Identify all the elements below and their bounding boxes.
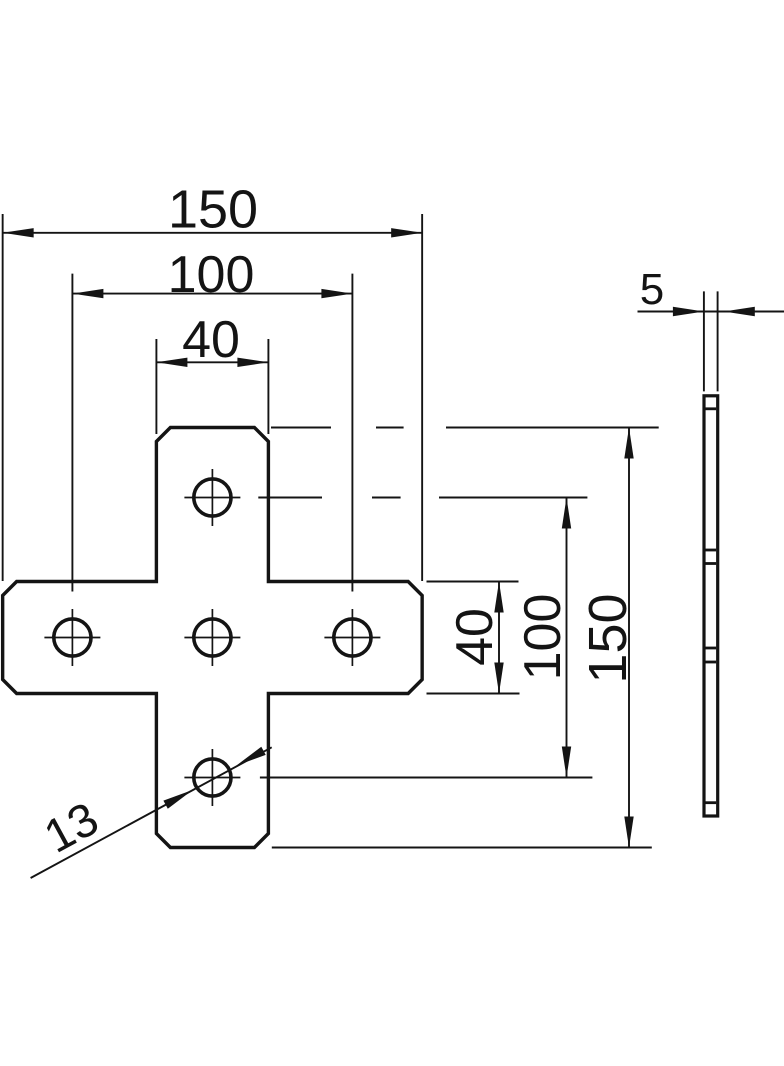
svg-text:40: 40 bbox=[446, 608, 504, 666]
dimension 150 right vertical bbox=[271, 428, 659, 848]
dimension 40 right vertical bbox=[427, 582, 520, 694]
hole left bbox=[54, 619, 91, 656]
hole center centerlines bbox=[184, 609, 240, 666]
svg-text:100: 100 bbox=[168, 246, 255, 304]
svg-text:150: 150 bbox=[578, 593, 638, 683]
svg-text:5: 5 bbox=[640, 265, 664, 314]
hole top bbox=[194, 479, 231, 516]
hole top centerlines bbox=[184, 469, 240, 526]
hole right centerlines bbox=[324, 609, 380, 666]
hole left centerlines bbox=[44, 609, 100, 666]
side view plate bbox=[704, 396, 718, 816]
leader 13 bbox=[31, 747, 272, 878]
hole center bbox=[194, 619, 231, 656]
hole bottom bbox=[194, 759, 231, 796]
side view edge ticks bbox=[706, 409, 717, 803]
front view plate outline bbox=[3, 428, 423, 848]
svg-text:150: 150 bbox=[168, 180, 258, 240]
dimension 100 right vertical bbox=[258, 498, 592, 778]
dimension 150 top bbox=[3, 214, 423, 581]
dimension 100 top bbox=[72, 274, 352, 592]
hole bottom centerlines bbox=[184, 749, 240, 806]
dimension 5 side view bbox=[638, 291, 784, 391]
dimension 40 top bbox=[156, 339, 268, 434]
hole right bbox=[334, 619, 371, 656]
svg-text:40: 40 bbox=[182, 311, 240, 369]
svg-text:100: 100 bbox=[514, 594, 572, 681]
